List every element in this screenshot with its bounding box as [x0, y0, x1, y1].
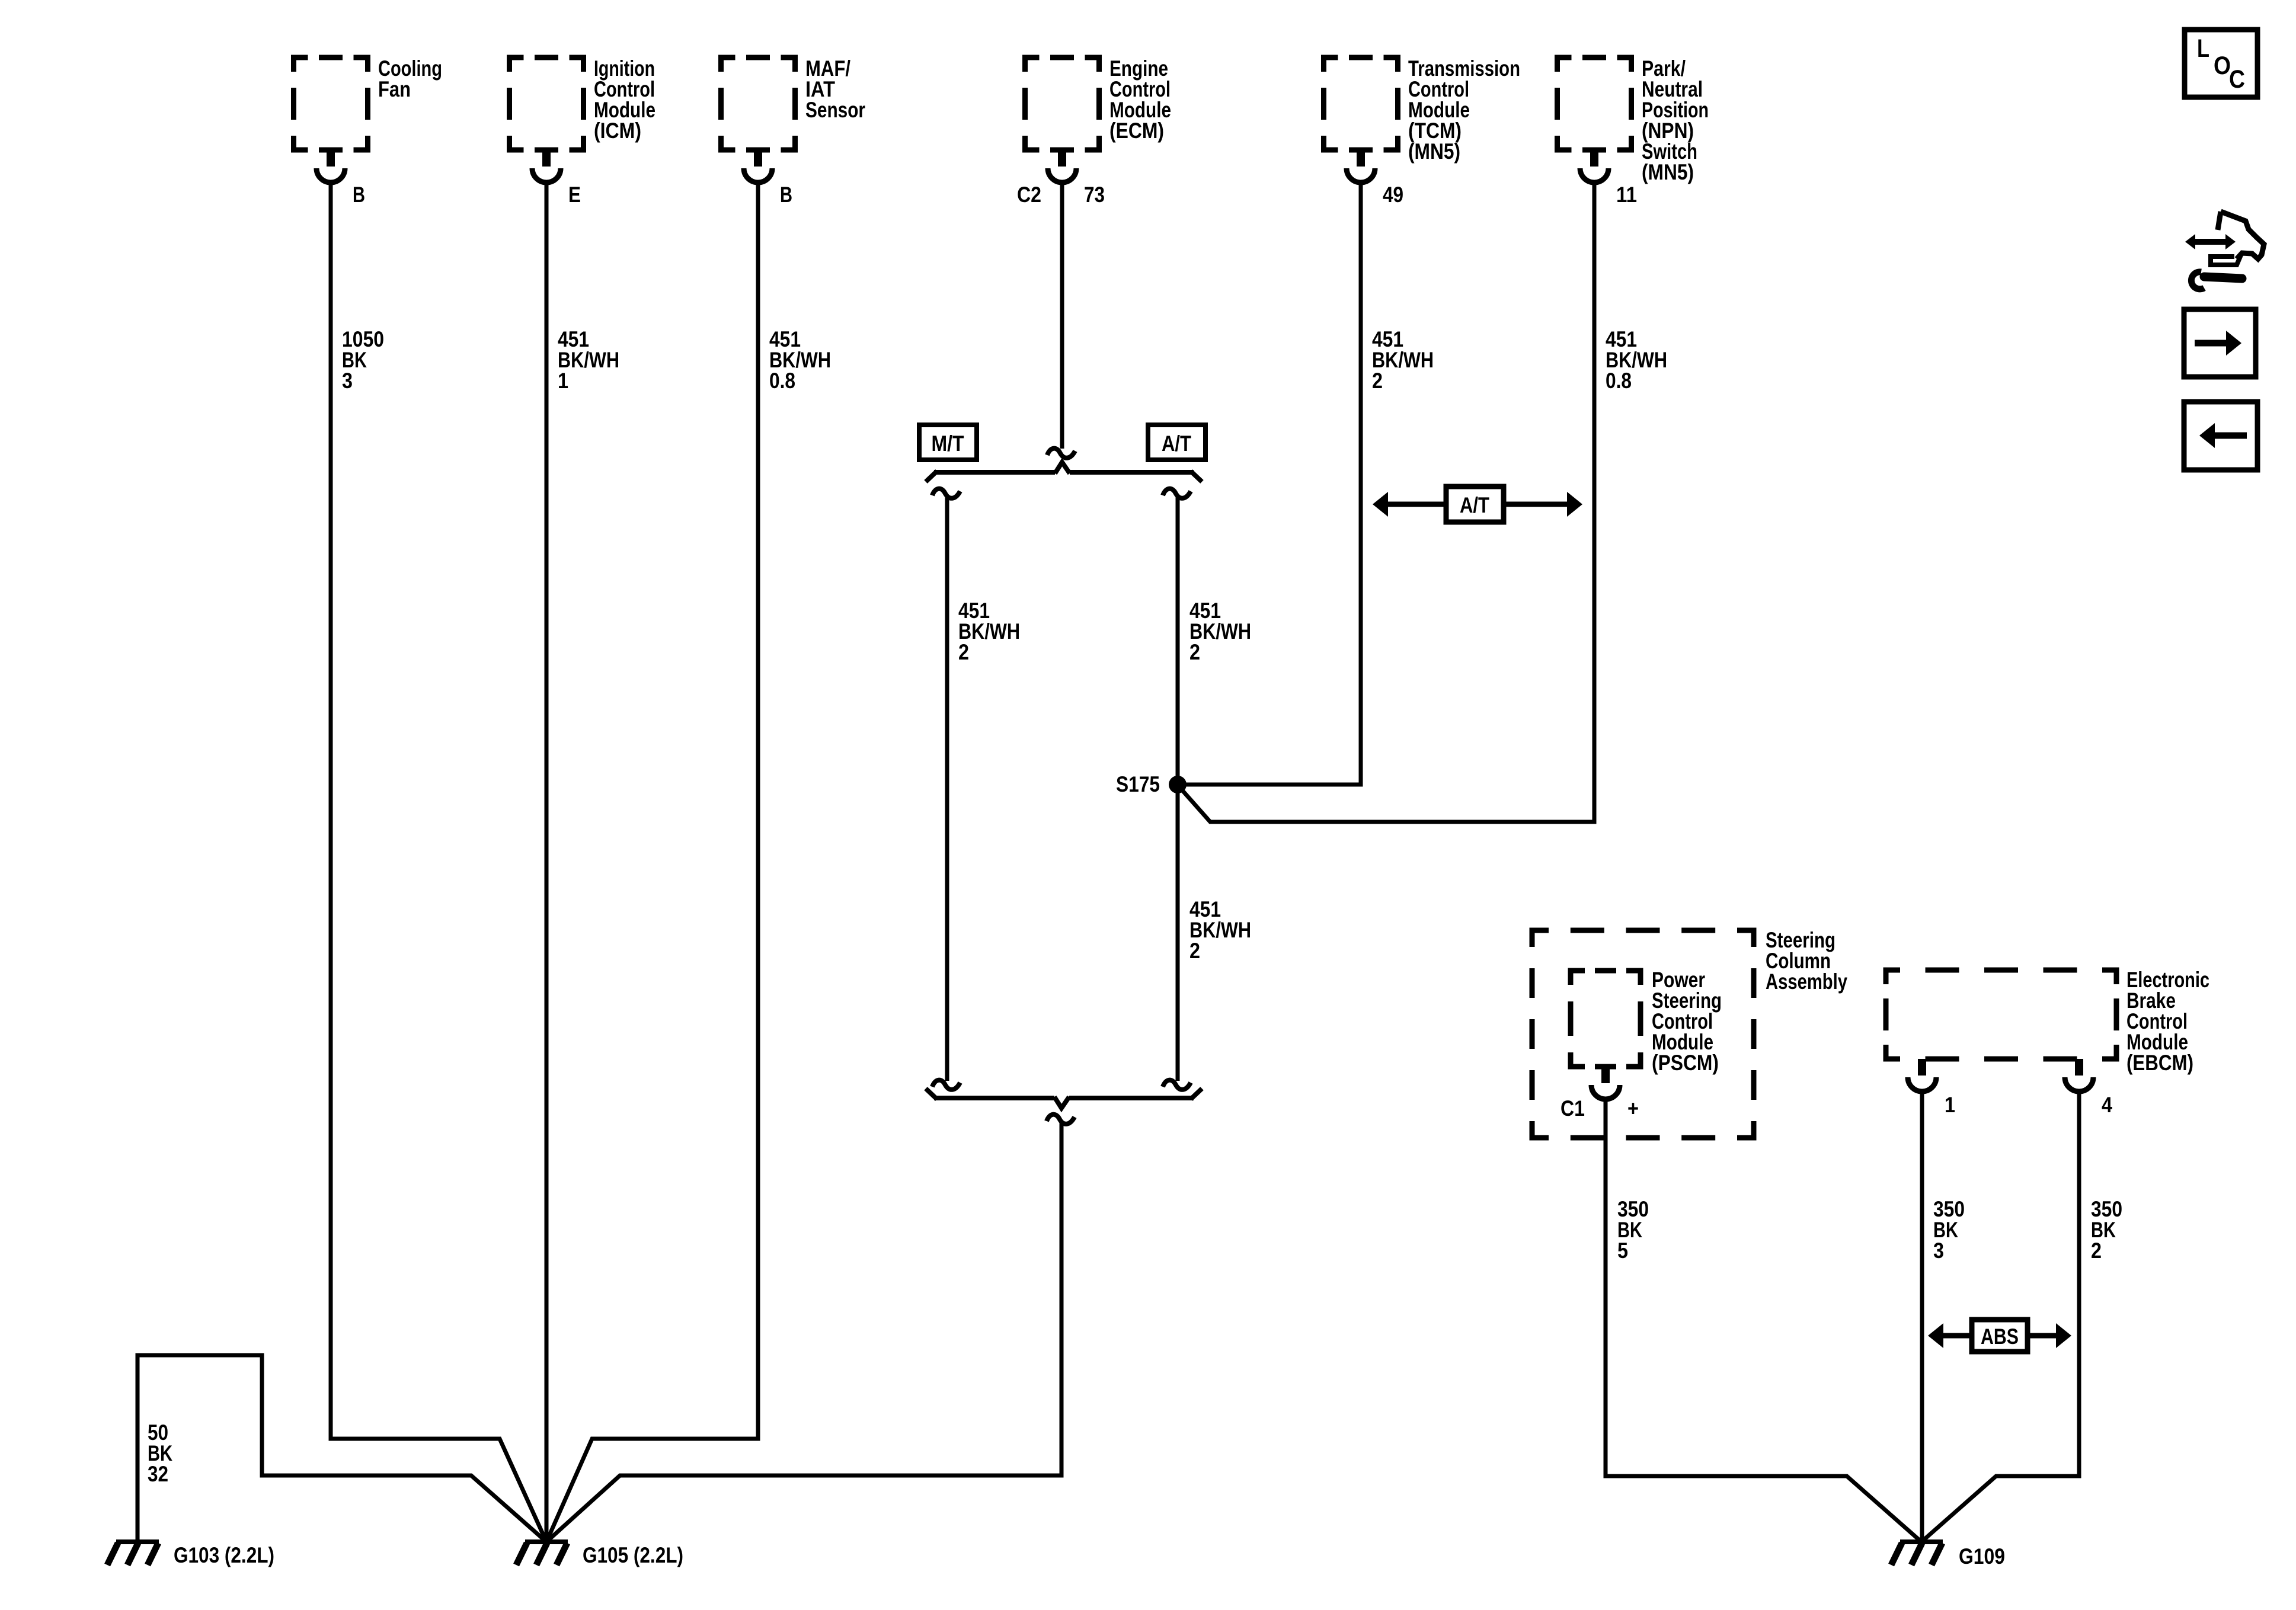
- curl at top of A/T branch: [1163, 489, 1191, 498]
- splice S175: [1116, 772, 1187, 796]
- svg-text:3: 3: [342, 369, 353, 393]
- wire: cooling fan ground wire 1050 BK 3: [331, 181, 546, 1542]
- svg-text:B: B: [780, 183, 792, 207]
- svg-text:4: 4: [2102, 1093, 2112, 1117]
- svg-text:0.8: 0.8: [1606, 369, 1632, 393]
- svg-text:E: E: [568, 183, 581, 207]
- svg-text:49: 49: [1383, 183, 1403, 207]
- component box: MAF/IAT sensor: [721, 56, 866, 150]
- svg-text:Assembly: Assembly: [1766, 969, 1847, 994]
- svg-text:ABS: ABS: [1981, 1324, 2019, 1349]
- curl at top of M/T branch: [932, 489, 960, 498]
- curl at bottom of M/T branch: [932, 1080, 960, 1090]
- svg-text:2: 2: [958, 640, 969, 664]
- option split brace (top): [926, 462, 1202, 482]
- option label A/T: [1148, 425, 1205, 460]
- svg-text:0.8: 0.8: [769, 369, 795, 393]
- svg-text:G109: G109: [1959, 1544, 2005, 1569]
- wire: EBCM pin 4 ground 350 BK 2: [1921, 1090, 2122, 1542]
- svg-text:3: 3: [1933, 1238, 1944, 1263]
- ABS option double arrow: [1928, 1320, 2071, 1352]
- connector pin 4 of EBCM: [2065, 1059, 2112, 1117]
- wire: TCM ground wire 451 BK/WH 2: [1179, 181, 1434, 785]
- power steering control module PSCM box: [1571, 968, 1722, 1075]
- svg-text:C: C: [2229, 65, 2245, 94]
- vehicle service icon with double arrow and wrench: [2185, 212, 2264, 289]
- connector at B pin of box x=558: [316, 150, 365, 207]
- wire: M/T branch 451 BK/WH 2: [947, 497, 1020, 1081]
- svg-text:2: 2: [2091, 1238, 2102, 1263]
- wire: ECM ground wire top segment: [1060, 181, 1064, 449]
- wire: NPN switch ground wire 451 BK/WH 0.8: [1178, 181, 1667, 822]
- option merge brace (bottom): [926, 1089, 1202, 1108]
- svg-text:(MN5): (MN5): [1408, 139, 1460, 164]
- svg-text:C1: C1: [1560, 1096, 1585, 1121]
- svg-text:S175: S175: [1116, 772, 1160, 796]
- wire: 451 BK/WH 2 below S175: [1189, 897, 1251, 963]
- component box: transmission control module TCM: [1324, 56, 1521, 164]
- option label M/T: [919, 425, 977, 460]
- curl at top of merged ECM ground wire: [1047, 1115, 1075, 1124]
- connector at 11 pin of box x=2690: [1580, 150, 1637, 207]
- wire: ICM ground wire 451 BK/WH 1: [546, 181, 619, 1542]
- wire: MAF/IAT ground wire 451 BK/WH 0.8: [546, 181, 831, 1542]
- wire: ground strap 50 BK 32 from G103 to G105: [137, 1355, 546, 1542]
- connector C1 + of PSCM: [1560, 1067, 1639, 1121]
- svg-text:5: 5: [1617, 1238, 1628, 1263]
- curl at bottom of A/T branch: [1163, 1080, 1191, 1090]
- LOC reference box: [2185, 30, 2257, 97]
- wire: A/T branch 451 BK/WH 2: [1178, 497, 1251, 1081]
- svg-text:+: +: [1627, 1096, 1639, 1121]
- svg-text:2: 2: [1189, 640, 1200, 664]
- breakout curl at ECM wire end: [1047, 449, 1075, 458]
- svg-text:A/T: A/T: [1162, 431, 1191, 456]
- svg-text:32: 32: [148, 1462, 168, 1486]
- component box: engine control module ECM: [1025, 56, 1172, 150]
- svg-text:Sensor: Sensor: [805, 98, 865, 122]
- svg-text:B: B: [353, 183, 365, 207]
- ground G103: [107, 1542, 274, 1567]
- component box: park/neutral position switch NPN: [1558, 56, 1709, 184]
- component box: cooling fan: [294, 56, 443, 150]
- svg-text:Fan: Fan: [378, 77, 411, 101]
- connector at E pin of box x=922: [532, 150, 581, 207]
- forward page arrow box: [2184, 309, 2256, 377]
- svg-text:M/T: M/T: [932, 431, 964, 456]
- svg-text:C2: C2: [1017, 183, 1041, 207]
- steering column assembly box: [1532, 928, 1847, 1138]
- svg-text:L: L: [2197, 34, 2209, 63]
- svg-text:1: 1: [1945, 1093, 1955, 1117]
- svg-text:(PSCM): (PSCM): [1652, 1051, 1719, 1075]
- A/T option double arrow: [1373, 486, 1582, 522]
- wire: merged ECM ground to G105: [546, 1122, 1061, 1542]
- connector at B pin of box x=1279: [744, 150, 792, 207]
- svg-text:(EBCM): (EBCM): [2126, 1051, 2193, 1075]
- ground G105: [516, 1542, 683, 1567]
- electronic brake control module EBCM box: [1886, 968, 2209, 1075]
- svg-text:2: 2: [1372, 369, 1383, 393]
- svg-text:73: 73: [1084, 183, 1105, 207]
- svg-text:1: 1: [558, 369, 568, 393]
- svg-text:G105 (2.2L): G105 (2.2L): [583, 1543, 683, 1567]
- wire: PSCM ground 350 BK 5: [1606, 1097, 1921, 1542]
- wire: EBCM pin 1 ground 350 BK 3: [1922, 1090, 1965, 1542]
- connector at 49 pin of box x=2296: [1347, 150, 1403, 207]
- backward page arrow box: [2184, 402, 2257, 470]
- component box: ignition control module ICM: [510, 56, 656, 150]
- svg-text:(MN5): (MN5): [1642, 160, 1694, 184]
- svg-text:A/T: A/T: [1460, 493, 1489, 517]
- connector at 73 pin of box x=1792: [1017, 150, 1105, 207]
- svg-text:11: 11: [1616, 183, 1637, 207]
- svg-text:2: 2: [1189, 939, 1200, 963]
- svg-text:G103 (2.2L): G103 (2.2L): [174, 1543, 274, 1567]
- svg-text:O: O: [2214, 52, 2231, 80]
- connector pin 1 of EBCM: [1908, 1059, 1955, 1117]
- ground G109: [1891, 1542, 2005, 1569]
- svg-text:(ICM): (ICM): [594, 119, 641, 143]
- svg-text:(ECM): (ECM): [1109, 119, 1164, 143]
